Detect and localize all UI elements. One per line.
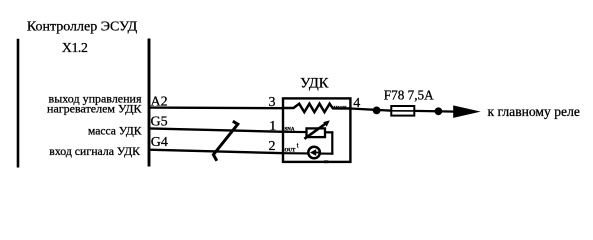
variable resistor influence arrow (304, 122, 327, 138)
svg-text:к главному реле: к главному реле (488, 104, 580, 119)
fuse F78 rectangle (391, 106, 414, 116)
wire fuse to arrow (414, 110, 456, 113)
svg-text:t: t (297, 141, 299, 149)
arrow to main relay (453, 105, 481, 118)
svg-text:1: 1 (269, 119, 276, 134)
sensing element wire from pin 1 (283, 131, 333, 134)
wire A2 to UDK pin 3 (149, 106, 284, 109)
svg-text:Контроллер ЭСУД: Контроллер ЭСУД (27, 20, 138, 35)
EMF cell (circle with arrow) (308, 147, 320, 159)
heater resistor inside UDK (zigzag) (283, 104, 352, 112)
svg-text:3: 3 (269, 95, 276, 110)
controller left edge line (17, 39, 20, 168)
sensing element wire from pin 2 (283, 152, 333, 155)
UDK sensor box (283, 98, 350, 161)
wire pin4 to fuse junction (350, 109, 392, 111)
wire through fuse (391, 110, 414, 112)
svg-text:F78 7,5А: F78 7,5А (384, 87, 434, 102)
svg-text:нагревателем УДК: нагревателем УДК (47, 102, 142, 116)
junction dot right of fuse (435, 107, 443, 115)
variable resistor element (rectangle) (307, 128, 326, 137)
svg-text:G4: G4 (151, 135, 168, 150)
controller connector X1.2 right edge line (148, 39, 151, 167)
svg-text:ш: ш (324, 159, 329, 165)
junction dot left of fuse (373, 107, 381, 115)
twisted-pair marker across G5/G4 wires (213, 121, 237, 161)
loop right side (331, 131, 333, 154)
svg-text:масса УДК: масса УДК (88, 124, 142, 137)
wire G5 to UDK pin 1 (149, 128, 284, 131)
wire G4 to UDK pin 2 (149, 150, 284, 154)
svg-text:Н12У: Н12У (334, 105, 347, 111)
svg-text:УДК: УДК (300, 76, 329, 92)
svg-text:X1.2: X1.2 (62, 40, 88, 55)
svg-text:вход сигнала УДК: вход сигнала УДК (49, 144, 140, 158)
svg-text:2: 2 (269, 139, 276, 154)
